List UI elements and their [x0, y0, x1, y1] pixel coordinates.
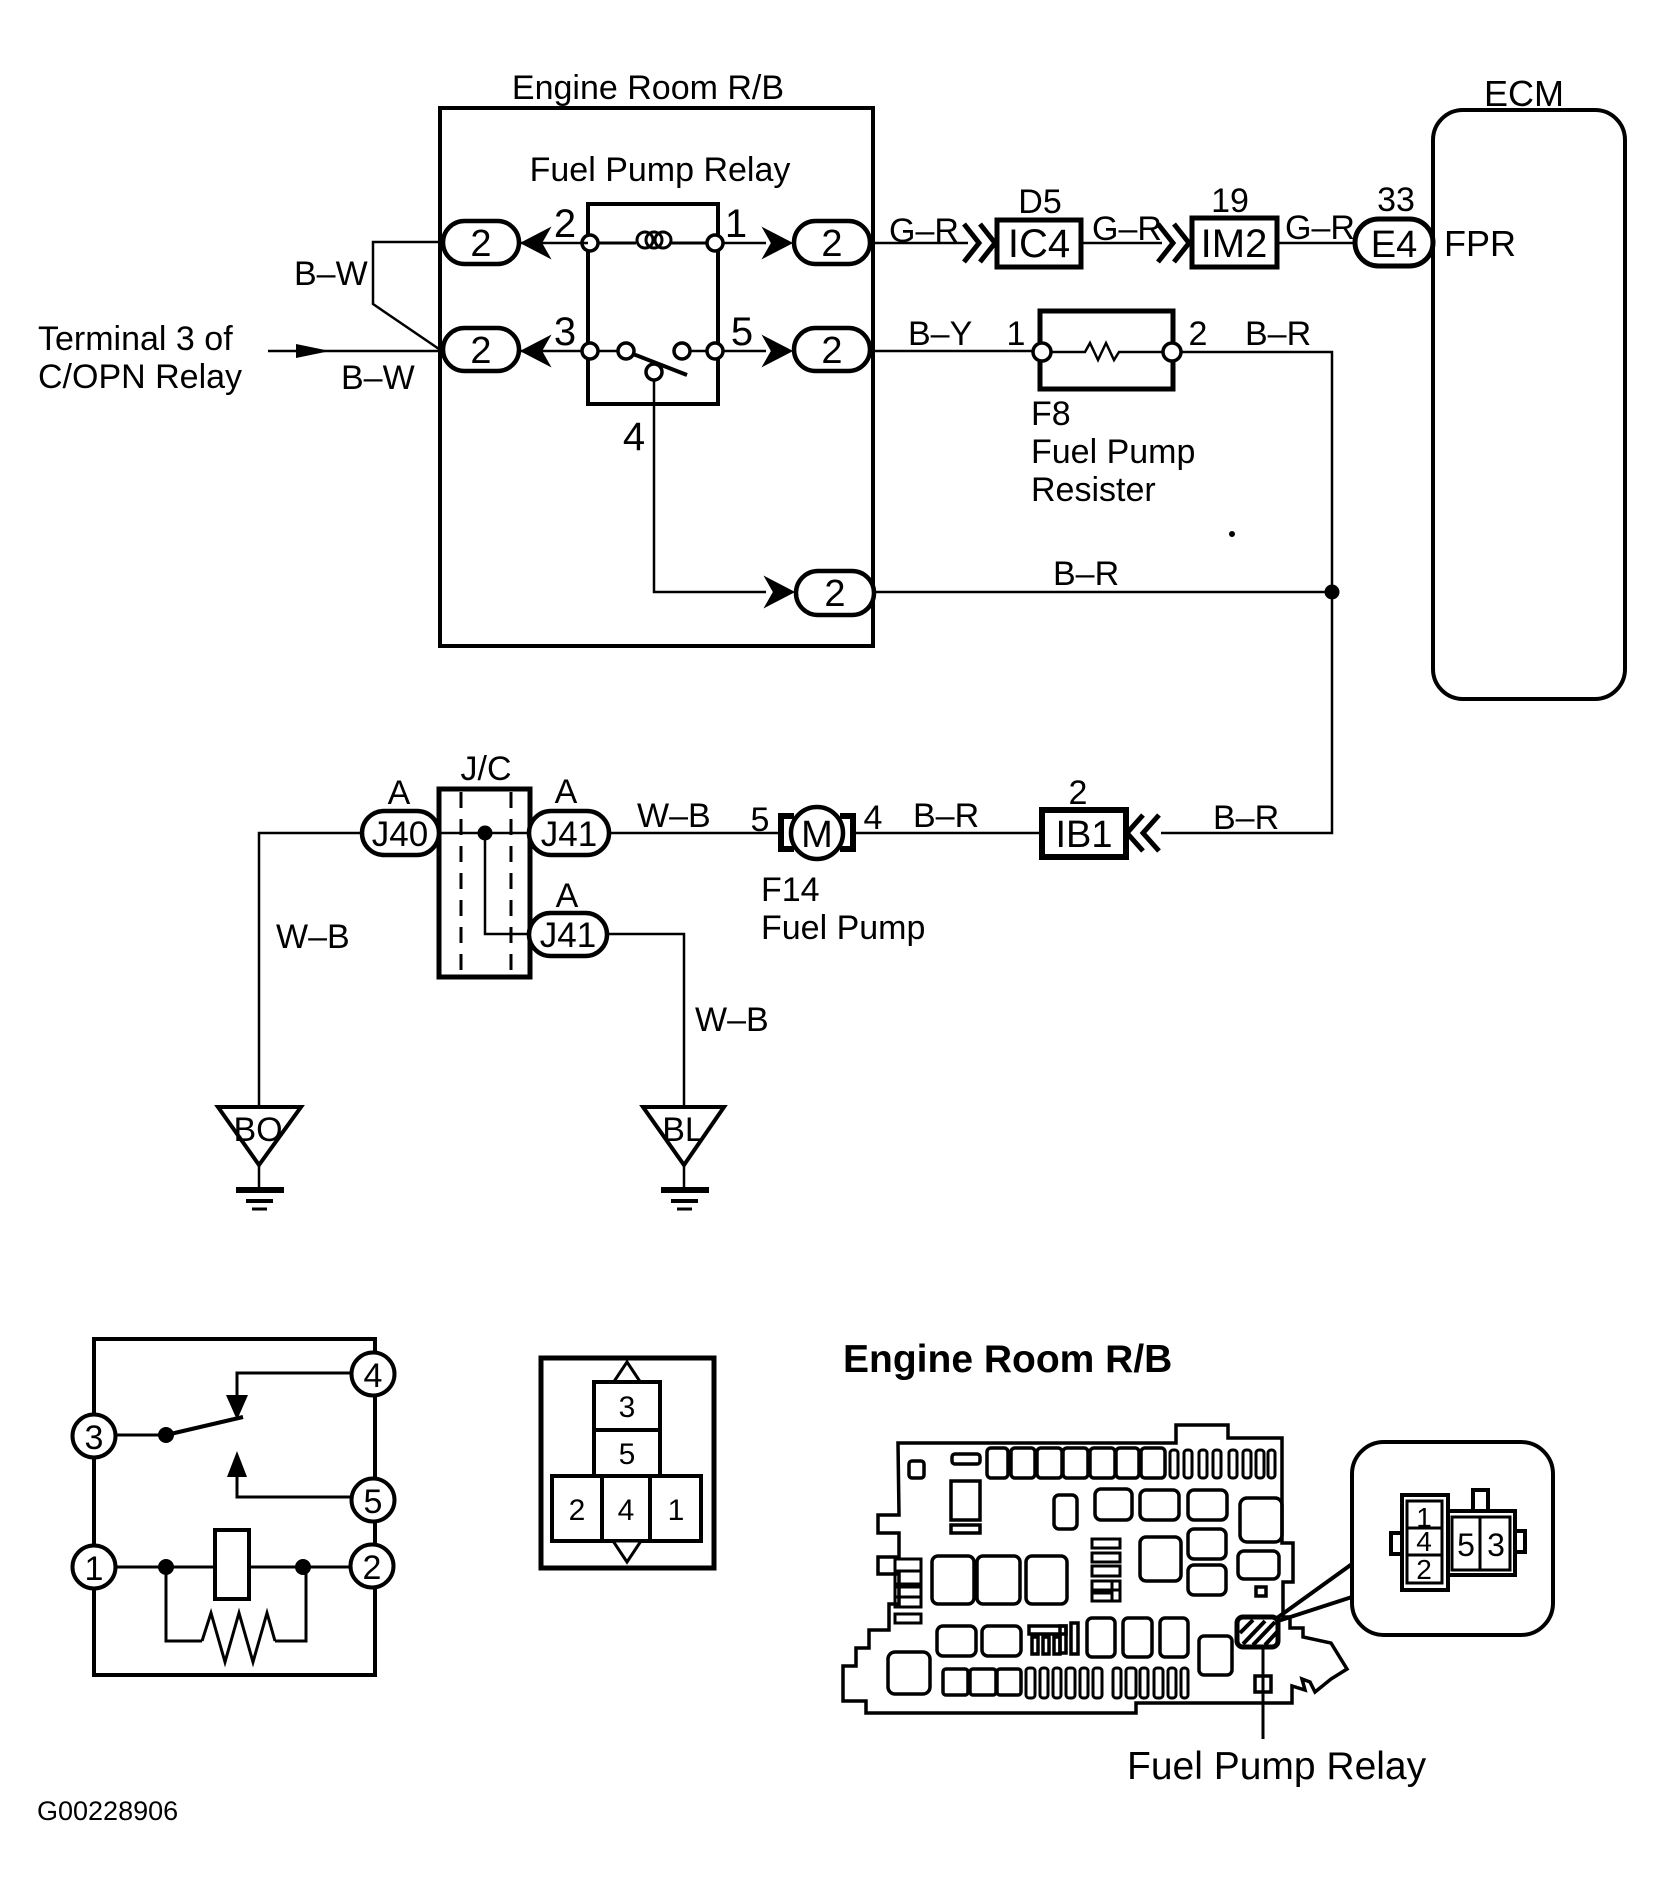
ground BL symbol	[661, 1165, 709, 1209]
connector oval E4	[1355, 219, 1433, 266]
wire from C/OPN relay with arrow	[268, 350, 443, 353]
svg-text:4: 4	[864, 799, 883, 837]
svg-text:4: 4	[1416, 1526, 1432, 1557]
svg-text:F14: F14	[761, 871, 820, 909]
svg-text:Fuel Pump: Fuel Pump	[761, 909, 925, 947]
arrow right (into connector 2, row 1 right)	[764, 229, 791, 257]
arrow right (into connector 2, row 3)	[766, 578, 793, 606]
relay pin 5 terminal circle	[707, 343, 723, 359]
arrow left (into connector 2, row 1)	[522, 229, 549, 257]
wire W-B: J41 lower right and down to ground BL	[607, 934, 684, 1107]
junction node dot	[1325, 585, 1340, 600]
relay connector pinout box	[541, 1358, 714, 1568]
fuse box middle thin bars	[1092, 1539, 1120, 1601]
svg-text:3: 3	[1487, 1527, 1505, 1563]
svg-text:G–R: G–R	[1285, 209, 1355, 247]
fuse box left E-slots	[895, 1559, 921, 1623]
wire B-W from oval 2 top-left going left and down	[373, 242, 443, 349]
wire from J/C dot down to J41 lower	[485, 833, 529, 934]
svg-text:2: 2	[470, 330, 491, 372]
svg-text:G00228906: G00228906	[37, 1796, 178, 1826]
ECM box	[1433, 110, 1625, 699]
wire G-R: oval to chevron	[870, 242, 968, 245]
wire: relay pin 4 down and right	[654, 380, 766, 592]
terminal circle 2	[351, 1545, 394, 1588]
motor M1 fuel pump: right bracket	[840, 816, 853, 849]
svg-text:Fuel Pump Relay: Fuel Pump Relay	[1127, 1745, 1427, 1788]
connector detail: right inner cells	[1452, 1517, 1510, 1570]
hatch lines	[1240, 1620, 1277, 1645]
arrow right (into connector 2, row 2 right)	[764, 337, 791, 365]
svg-text:Engine Room R/B: Engine Room R/B	[843, 1338, 1172, 1381]
J/C internal junction dot	[478, 826, 493, 841]
svg-text:BO: BO	[233, 1111, 282, 1149]
pinout orientation triangle up	[613, 1362, 641, 1383]
svg-text:A: A	[388, 774, 411, 812]
wire: relay pin 5 to arrow	[723, 350, 766, 353]
relay pin 2 terminal circle	[582, 235, 598, 251]
terminal circle 4	[352, 1353, 395, 1396]
svg-text:B–R: B–R	[1053, 555, 1119, 593]
svg-text:B–R: B–R	[1245, 315, 1311, 353]
ground BL triangle	[643, 1107, 724, 1165]
pinout cavity 3	[594, 1382, 660, 1430]
svg-text:2: 2	[363, 1549, 382, 1587]
motor M1 fuel pump: body	[791, 807, 843, 859]
connector oval 2 (row 3)	[796, 571, 874, 615]
wire: oval to relay pin 3	[519, 350, 588, 353]
svg-text:2: 2	[821, 330, 842, 372]
svg-text:19: 19	[1211, 182, 1249, 220]
switch common circle (pin 4)	[646, 364, 662, 380]
stray dot artifact	[1229, 531, 1235, 537]
connector oval J41 (lower)	[529, 913, 607, 956]
pointer line from hatched relay down	[1262, 1647, 1265, 1739]
connector oval 2 (top left)	[443, 221, 519, 264]
fuel pump relay hatched square	[1237, 1617, 1278, 1647]
svg-text:4: 4	[623, 415, 645, 459]
svg-text:2: 2	[1069, 774, 1088, 812]
wire: oval to relay pin 2	[519, 242, 588, 245]
relay coil L1	[598, 232, 708, 248]
svg-text:3: 3	[554, 310, 576, 354]
pinout cavity 1	[650, 1476, 701, 1541]
svg-text:J40: J40	[372, 815, 428, 854]
callout line lower	[1278, 1597, 1352, 1621]
svg-text:B–R: B–R	[913, 797, 979, 835]
svg-text:D5: D5	[1018, 183, 1061, 221]
svg-text:2: 2	[821, 223, 842, 265]
fuse box relays row 2	[1054, 1489, 1282, 1542]
svg-text:BL: BL	[662, 1111, 704, 1149]
relay coil box (internal schematic)	[215, 1530, 249, 1599]
wire W-B: J40 left and down to ground BO	[259, 833, 362, 1107]
arrow up (contact from 5)	[227, 1451, 247, 1477]
junction block: Engine Room R/B box	[440, 108, 873, 646]
connector IB1 box	[1042, 810, 1126, 857]
wire terminal 3 to pivot	[116, 1434, 160, 1437]
svg-text:G–R: G–R	[1092, 210, 1162, 248]
fuse box middle squares right	[1140, 1529, 1279, 1596]
switch blade (internal schematic)	[166, 1417, 243, 1435]
svg-text:J41: J41	[541, 815, 597, 854]
arrow left (into connector 2, row 2)	[522, 337, 549, 365]
switch pivot dot	[158, 1427, 174, 1443]
relay internal schematic: outer box	[94, 1339, 375, 1675]
svg-text:C/OPN Relay: C/OPN Relay	[38, 358, 242, 396]
svg-text:2: 2	[824, 573, 845, 615]
svg-text:33: 33	[1377, 181, 1415, 219]
connector oval J41 (upper)	[529, 811, 609, 855]
connector IC4 box	[997, 220, 1081, 267]
wire W-B: J41 to motor	[609, 832, 781, 835]
internal resistor bypass wire	[166, 1567, 202, 1641]
svg-text:W–B: W–B	[637, 797, 711, 835]
wire contact B to pin 5	[690, 350, 707, 353]
relay pin 3 terminal circle	[582, 343, 598, 359]
connector oval 2 (row 2 left)	[443, 328, 519, 371]
terminal circle 3	[73, 1415, 116, 1458]
wire B-R: oval row3 to junction	[874, 591, 1332, 594]
svg-text:Resister: Resister	[1031, 471, 1156, 509]
wire pin3 to contact	[598, 350, 618, 353]
pinout cavity 5	[594, 1430, 660, 1476]
junction dot left of coil	[158, 1559, 174, 1575]
J/C dashed line left	[460, 792, 463, 974]
terminal circle 1	[73, 1546, 116, 1589]
svg-text:1: 1	[725, 202, 747, 246]
junction connector J/C box	[439, 789, 530, 977]
pinout cavity 2	[552, 1476, 602, 1541]
wire G-R: IC4 to chevron 2	[1081, 242, 1162, 245]
connector detail: left tab	[1391, 1533, 1402, 1554]
svg-text:5: 5	[1457, 1527, 1475, 1563]
svg-text:FPR: FPR	[1444, 223, 1516, 264]
svg-text:5: 5	[731, 310, 753, 354]
svg-text:IC4: IC4	[1008, 222, 1070, 266]
wire: resistor pin 2 right then down	[1181, 352, 1332, 592]
terminal circle 5	[352, 1479, 395, 1522]
svg-text:G–R: G–R	[889, 212, 959, 250]
resistor pin 1 circle	[1033, 343, 1051, 361]
svg-text:1: 1	[1007, 315, 1026, 353]
fuse box row 4	[937, 1618, 1232, 1675]
wire inside J/C: J40 to J41s	[439, 832, 529, 835]
relay pin 1 terminal circle	[707, 235, 723, 251]
fuse box outline	[843, 1425, 1347, 1713]
wire terminal 4 to down-arrow	[237, 1373, 352, 1396]
svg-text:3: 3	[619, 1391, 636, 1424]
svg-text:F8: F8	[1031, 395, 1071, 433]
ground BO triangle	[218, 1107, 301, 1165]
small square on pointer line	[1255, 1676, 1271, 1692]
arrow right on C/OPN wire	[296, 344, 330, 358]
switch contact circle A	[618, 343, 634, 359]
svg-text:1: 1	[85, 1550, 104, 1588]
svg-text:IM2: IM2	[1201, 222, 1268, 266]
wire G-R: IM2 to E4	[1277, 242, 1355, 245]
wire terminal 1 to terminal 2 through coil	[115, 1566, 350, 1569]
svg-text:5: 5	[619, 1438, 636, 1471]
svg-text:B–W: B–W	[294, 255, 368, 293]
wire B-Y: oval to resistor pin 1	[870, 350, 1035, 353]
svg-text:J41: J41	[540, 916, 596, 955]
switch contact circle B	[674, 343, 690, 359]
fuse box bottom-left big square	[888, 1652, 930, 1694]
svg-text:A: A	[555, 773, 578, 811]
relay K1: Fuel Pump Relay body	[588, 204, 718, 404]
svg-text:A: A	[556, 877, 579, 915]
wire B-R: junction down then left to IB1	[1161, 592, 1332, 833]
pinout cavity 4	[602, 1476, 650, 1541]
arrow down (contact from 4)	[226, 1395, 248, 1420]
svg-text:E4: E4	[1371, 224, 1417, 266]
pinout orientation triangle down	[613, 1541, 641, 1562]
svg-text:Fuel Pump: Fuel Pump	[1031, 433, 1195, 471]
svg-text:2: 2	[1189, 315, 1208, 353]
svg-text:W–B: W–B	[276, 918, 350, 956]
svg-text:2: 2	[470, 223, 491, 265]
connector detail: top tab	[1473, 1490, 1488, 1512]
connector IM2 box	[1192, 218, 1277, 267]
resistor pin 2 circle	[1163, 343, 1181, 361]
resistor element zigzag	[1051, 343, 1163, 360]
connector oval 2 (row 2 right)	[794, 328, 870, 371]
svg-text:2: 2	[554, 202, 576, 246]
svg-text:5: 5	[364, 1483, 383, 1521]
internal resistor zigzag	[202, 1613, 275, 1662]
wire terminal 5 to up-arrow	[237, 1477, 352, 1497]
svg-text:B–R: B–R	[1213, 799, 1279, 837]
svg-text:B–Y: B–Y	[908, 315, 972, 353]
svg-text:J/C: J/C	[461, 750, 512, 788]
svg-text:4: 4	[364, 1357, 383, 1395]
svg-text:2: 2	[569, 1494, 586, 1527]
chevron splice (double arrow) 1	[964, 224, 995, 262]
internal resistor bypass wire right	[275, 1567, 306, 1641]
svg-text:2: 2	[1416, 1554, 1432, 1585]
fuse box big squares middle	[932, 1556, 1067, 1604]
svg-text:M: M	[801, 814, 833, 856]
connector oval J40	[362, 811, 439, 855]
fuse box bottom slots	[1026, 1668, 1188, 1698]
svg-text:B–W: B–W	[341, 359, 415, 397]
connector detail: right tab	[1515, 1531, 1525, 1552]
svg-text:3: 3	[85, 1419, 104, 1457]
wire B-R: motor to IB1	[854, 832, 1042, 835]
connector oval 2 (top right)	[794, 221, 870, 264]
svg-text:Engine Room R/B: Engine Room R/B	[512, 69, 784, 107]
callout rounded box	[1352, 1442, 1553, 1635]
svg-text:Terminal 3 of: Terminal 3 of	[38, 320, 233, 358]
resistor F8 box	[1040, 311, 1173, 389]
switch blade	[633, 354, 687, 375]
svg-text:4: 4	[618, 1494, 635, 1527]
fuse box small elements upper-left	[909, 1454, 980, 1533]
wire: relay pin 1 to arrow	[723, 242, 766, 245]
chevron splice (double arrow, left) at IB1	[1127, 815, 1159, 851]
connector detail: right outer	[1448, 1511, 1515, 1575]
callout line upper	[1277, 1564, 1352, 1618]
svg-text:1: 1	[668, 1494, 685, 1527]
svg-text:W–B: W–B	[695, 1001, 769, 1039]
chevron splice (double arrow) 2	[1158, 224, 1189, 262]
fuse row top slots	[1170, 1450, 1275, 1478]
connector detail: left column inner cells	[1407, 1501, 1442, 1583]
connector detail: left column outer	[1402, 1495, 1448, 1590]
fuse row top squares	[987, 1448, 1165, 1478]
svg-text:IB1: IB1	[1055, 814, 1112, 856]
J/C dashed line right	[510, 792, 513, 974]
svg-text:ECM: ECM	[1484, 73, 1564, 114]
motor M1 fuel pump: left bracket	[781, 816, 794, 849]
svg-text:Fuel Pump Relay: Fuel Pump Relay	[530, 151, 791, 189]
junction dot right of coil	[295, 1559, 311, 1575]
fuse box bottom small squares	[943, 1669, 1021, 1695]
ground BO symbol	[236, 1165, 284, 1209]
